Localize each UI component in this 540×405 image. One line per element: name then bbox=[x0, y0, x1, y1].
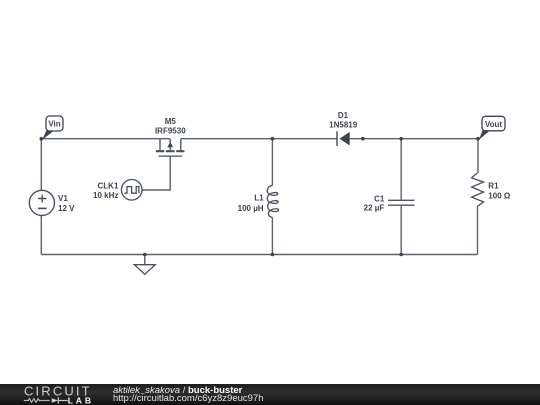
wire C1 top bbox=[400, 139, 402, 200]
svg-text:CLK1: CLK1 bbox=[98, 182, 119, 191]
node Vin junction bbox=[40, 137, 44, 141]
svg-text:22 µF: 22 µF bbox=[364, 203, 385, 212]
inductor L1 bbox=[267, 185, 278, 217]
svg-text:L1: L1 bbox=[254, 194, 264, 203]
wire C1 bottom bbox=[400, 206, 402, 255]
wire M5 gate to CLK1 bbox=[142, 156, 170, 190]
svg-text:IRF9530: IRF9530 bbox=[155, 127, 186, 136]
svg-text:V1: V1 bbox=[58, 194, 68, 203]
svg-text:100 Ω: 100 Ω bbox=[488, 192, 511, 201]
node C1 top junction bbox=[399, 137, 403, 141]
footer bar bbox=[0, 384, 540, 405]
svg-text:C1: C1 bbox=[374, 194, 385, 203]
node L1 top junction bbox=[271, 137, 275, 141]
node ground junction bbox=[143, 253, 147, 257]
wire top rail left (Vin node to M5) bbox=[41, 138, 170, 140]
svg-text:1N5819: 1N5819 bbox=[329, 121, 358, 130]
CircuitLab logo bbox=[0, 384, 100, 405]
svg-text:M5: M5 bbox=[165, 117, 177, 126]
wire L1 bottom bbox=[271, 218, 273, 255]
wire top rail right (D1 anode to Vout node) bbox=[350, 138, 478, 140]
svg-text:10 kHz: 10 kHz bbox=[93, 191, 118, 200]
footer text bbox=[113, 387, 264, 405]
wire V1 bottom to bottom rail bbox=[40, 216, 42, 255]
wire bottom rail bbox=[41, 254, 477, 256]
wire Vout branch down to R1 bbox=[477, 139, 480, 255]
M5 bulk arrow bbox=[167, 142, 173, 147]
node C1 bottom junction bbox=[399, 253, 403, 257]
node mid-wire junction bbox=[361, 137, 365, 141]
node Vout label bbox=[479, 116, 505, 139]
svg-text:Vin: Vin bbox=[48, 120, 60, 129]
node Vout junction bbox=[476, 137, 480, 141]
wire L1 top bbox=[271, 139, 273, 186]
transistor M5 (PMOS) bbox=[156, 139, 185, 156]
junction dots bbox=[40, 137, 480, 256]
wire top rail middle (M5 drain to D1 cathode) bbox=[181, 138, 337, 140]
node L1 bottom junction bbox=[271, 253, 275, 257]
wire left branch (Vin node down to V1) bbox=[40, 139, 42, 191]
voltage source V1 bbox=[29, 190, 54, 215]
node Vin label bbox=[42, 116, 63, 140]
capacitor C1 bbox=[388, 200, 415, 205]
svg-text:R1: R1 bbox=[488, 182, 499, 191]
svg-text:Vout: Vout bbox=[485, 120, 503, 129]
ground bbox=[134, 255, 155, 275]
resistor R1 bbox=[472, 173, 484, 206]
svg-text:12 V: 12 V bbox=[58, 204, 75, 213]
clock source CLK1 bbox=[121, 180, 142, 201]
diode D1 bbox=[337, 131, 350, 146]
svg-text:LAB: LAB bbox=[68, 396, 94, 405]
svg-text:D1: D1 bbox=[338, 111, 349, 120]
svg-text:100 µH: 100 µH bbox=[238, 204, 264, 213]
